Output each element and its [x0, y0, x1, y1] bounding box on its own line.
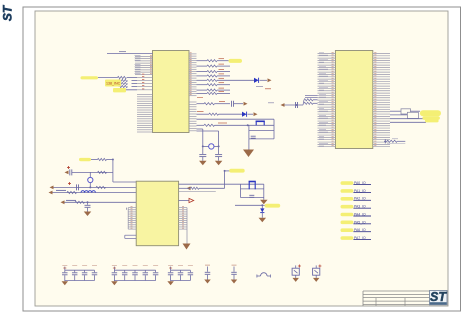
label crystal — [218, 122, 227, 124]
port arrow P3 — [50, 186, 54, 190]
svg-text:PA7_IO: PA7_IO — [354, 236, 366, 240]
IC U1 — [153, 51, 190, 133]
crystal X2 — [248, 182, 250, 190]
resistor fan R21 — [304, 102, 313, 104]
label TX — [119, 51, 126, 53]
wire circle vertical — [89, 172, 91, 177]
wire P4 — [53, 192, 137, 194]
resistor RA5 — [197, 79, 208, 81]
ground bank B2 — [113, 280, 115, 283]
svg-text:PA3_IO: PA3_IO — [354, 205, 366, 209]
U2 right pins — [373, 54, 390, 147]
wire USB highlighted — [98, 77, 118, 79]
title block table — [363, 290, 430, 292]
resistor RP1 — [98, 158, 107, 160]
resistor fan R20 — [304, 99, 313, 101]
label RA7 — [219, 87, 225, 89]
highlight label 138_INC — [105, 80, 121, 87]
svg-text:PA2_IO: PA2_IO — [354, 197, 366, 201]
wire U2 right row1 — [390, 110, 401, 112]
wire bypass vertical 1 — [202, 129, 204, 154]
node circle J2 — [88, 177, 93, 182]
wire U3 right thin — [179, 190, 216, 192]
net label N1 — [341, 181, 354, 185]
tiny mid labels — [256, 86, 263, 88]
wire fan a — [305, 97, 318, 99]
label P4 — [56, 189, 66, 191]
capacitor single C20 — [207, 267, 209, 272]
labels bank B1 — [62, 265, 67, 267]
resistor RA4 — [197, 75, 208, 77]
highlight stack 1 — [420, 110, 441, 116]
net label N8 — [341, 236, 354, 240]
svg-text:PA1_IO: PA1_IO — [354, 189, 366, 193]
wire crystal top — [215, 124, 275, 126]
capacitor CP5 — [87, 202, 89, 205]
label RA5 — [219, 77, 225, 79]
inductor LP4 — [81, 191, 95, 193]
label RA3 — [219, 69, 225, 71]
resistor R12 — [119, 82, 128, 84]
port arrow mid left — [281, 103, 285, 107]
crystal box2 — [240, 184, 242, 197]
resistor R10 — [118, 76, 127, 78]
capacitor mid — [295, 102, 297, 108]
wire U2 right row4 — [390, 121, 426, 123]
resistor RA8 — [197, 92, 208, 94]
port arrow U3 right — [187, 186, 191, 190]
wire P1 — [91, 159, 98, 161]
ground Q1 — [292, 278, 299, 282]
highlight P1 — [79, 158, 91, 161]
resistor RA3 — [197, 71, 208, 73]
IC U3 — [136, 181, 178, 246]
ST logo title block — [430, 291, 448, 305]
net label N7 — [341, 228, 354, 232]
resistor RA2 — [197, 65, 208, 67]
crystal box1 — [248, 125, 250, 139]
svg-text:PA0_IO: PA0_IO — [354, 181, 366, 185]
svg-text:PA4_IO: PA4_IO — [354, 212, 366, 216]
U1 right pins upper — [189, 54, 197, 96]
label RA1 — [219, 58, 225, 60]
label RA2 — [219, 63, 225, 65]
U3 left pin bus — [127, 208, 129, 230]
ground bank B3 — [170, 280, 172, 283]
ground bank B1 — [64, 280, 66, 283]
IC U2 — [335, 51, 372, 149]
resistor RA7 — [197, 89, 208, 91]
port arrow row3 — [254, 112, 258, 116]
svg-text:ST: ST — [430, 290, 447, 304]
highlight Q pill — [229, 169, 245, 173]
jumper JP1 — [257, 275, 261, 277]
ground CD2 — [215, 161, 223, 166]
resistor RB2 — [197, 113, 210, 115]
ground Q2 — [313, 278, 320, 282]
wire RQ1 to pill — [199, 187, 225, 189]
crystal X1 — [255, 121, 257, 125]
labels bank B2 — [112, 265, 117, 267]
net label N5 — [341, 213, 354, 217]
ST logo page corner rotated — [1, 4, 15, 21]
open arrow U3 — [179, 200, 189, 202]
capacitor single C21 — [233, 267, 235, 272]
wire crystal2 top — [179, 183, 241, 185]
wire row 89.8 — [117, 89, 137, 91]
capacitor CD2 — [215, 154, 222, 156]
wire row y119 — [197, 118, 275, 120]
wire P1 corner — [107, 159, 113, 161]
U1 right pins lower — [189, 102, 197, 131]
ground CD1 — [199, 161, 207, 166]
wire fan b — [305, 94, 318, 96]
wire P3 — [54, 186, 137, 188]
component F2 — [407, 112, 418, 118]
capacitor CB1 — [231, 101, 233, 107]
ground C20 — [204, 280, 211, 284]
wire to HL1 — [217, 60, 229, 62]
junction dots — [224, 170, 226, 172]
label plus P3 — [68, 183, 71, 185]
net label N4 — [341, 205, 354, 209]
U3 pin numbers — [131, 207, 185, 229]
label RA8 — [219, 90, 225, 92]
capacitor CX2 — [249, 194, 254, 196]
U3 right short pins — [179, 208, 187, 230]
ground crystal2 — [263, 198, 265, 200]
U1 pin numbers — [150, 53, 192, 95]
label RB1 — [219, 100, 225, 102]
component Q1 — [295, 265, 297, 268]
ground CP5 — [84, 212, 92, 217]
resistor RP3 — [96, 186, 106, 188]
wire P2 — [72, 171, 113, 173]
port arrow P4 — [49, 191, 53, 195]
label plus P2 — [67, 167, 70, 169]
ground crystal1 — [248, 139, 250, 150]
wire P5 — [65, 201, 137, 203]
wire osc out — [235, 204, 262, 206]
U1 left pins mid — [137, 78, 153, 90]
svg-text:PA6_IO: PA6_IO — [354, 228, 366, 232]
U3 bottom left wires — [125, 234, 136, 236]
port arrow P2 — [65, 171, 69, 175]
U1 left pins upper — [135, 56, 153, 75]
capacitor bank B1 — [65, 269, 95, 271]
ground DZ — [259, 218, 267, 223]
U3 left short pins — [128, 208, 136, 230]
label RA4 — [219, 73, 225, 75]
net label N6 — [341, 221, 354, 225]
resistor RP4 — [67, 191, 77, 193]
wire U2 right row3 — [390, 118, 425, 120]
U2 pin numbers — [332, 53, 377, 146]
resistor RP5 — [75, 201, 85, 203]
resistor RB3 — [197, 124, 205, 126]
port arrow P5 — [61, 200, 65, 204]
resistor U2 right bottom — [384, 140, 387, 142]
U2 left pin labels — [319, 53, 328, 146]
highlight stack 3 — [425, 119, 439, 122]
net label N3 — [341, 197, 354, 201]
highlight osc pill — [265, 204, 281, 208]
resistor RA6 — [197, 84, 208, 86]
U3 right pin bus — [186, 208, 188, 244]
port arrow row2 — [244, 102, 248, 106]
resistor RB1 — [197, 103, 205, 105]
LED D1 — [254, 78, 259, 83]
resistor R13 — [119, 85, 128, 87]
ground C21 — [231, 280, 238, 284]
svg-text:138_INC: 138_INC — [106, 82, 121, 86]
capacitor CP2 — [69, 169, 71, 175]
capacitor bank B3 — [171, 269, 191, 271]
wire U2 right row2 — [390, 114, 407, 116]
highlight stack 2 — [422, 116, 440, 120]
svg-text:ST: ST — [1, 4, 15, 21]
ground U3 right — [183, 244, 191, 250]
capacitor CX1 — [251, 135, 256, 137]
highlight label 2 — [113, 88, 126, 92]
resistor RP2 — [98, 171, 107, 173]
labels bank B3 — [168, 265, 173, 267]
net label N2 — [341, 189, 354, 193]
component Q2 — [315, 265, 317, 268]
diode DZ — [261, 205, 263, 208]
wire mid bundle — [285, 104, 304, 106]
LED D2 — [242, 112, 247, 117]
U1 left pins lower — [137, 95, 153, 132]
resistor RQ1 — [179, 187, 191, 189]
resistor RA1 — [197, 60, 208, 62]
highlight HL1 — [229, 59, 243, 63]
component F1 — [401, 109, 411, 114]
svg-text:PA5_IO: PA5_IO — [354, 220, 366, 224]
wire net TX to U1 pin1 — [107, 53, 153, 55]
node circle J1 — [203, 145, 209, 147]
capacitor CD1 — [199, 154, 206, 156]
wire bypass vertical 2 — [218, 131, 220, 154]
highlight usb wire — [81, 76, 99, 79]
label RA6 — [219, 82, 225, 84]
label RB2 left — [197, 111, 204, 113]
capacitor bank B2 — [114, 269, 155, 271]
capacitor CP3 — [76, 184, 78, 190]
wire LED row 1 — [217, 79, 254, 81]
label P5 — [66, 199, 76, 201]
resistor R11 — [119, 79, 128, 81]
U2 left pins — [318, 54, 336, 147]
port arrow row1 — [268, 78, 272, 82]
U1 mid pin numbers red — [142, 74, 144, 89]
